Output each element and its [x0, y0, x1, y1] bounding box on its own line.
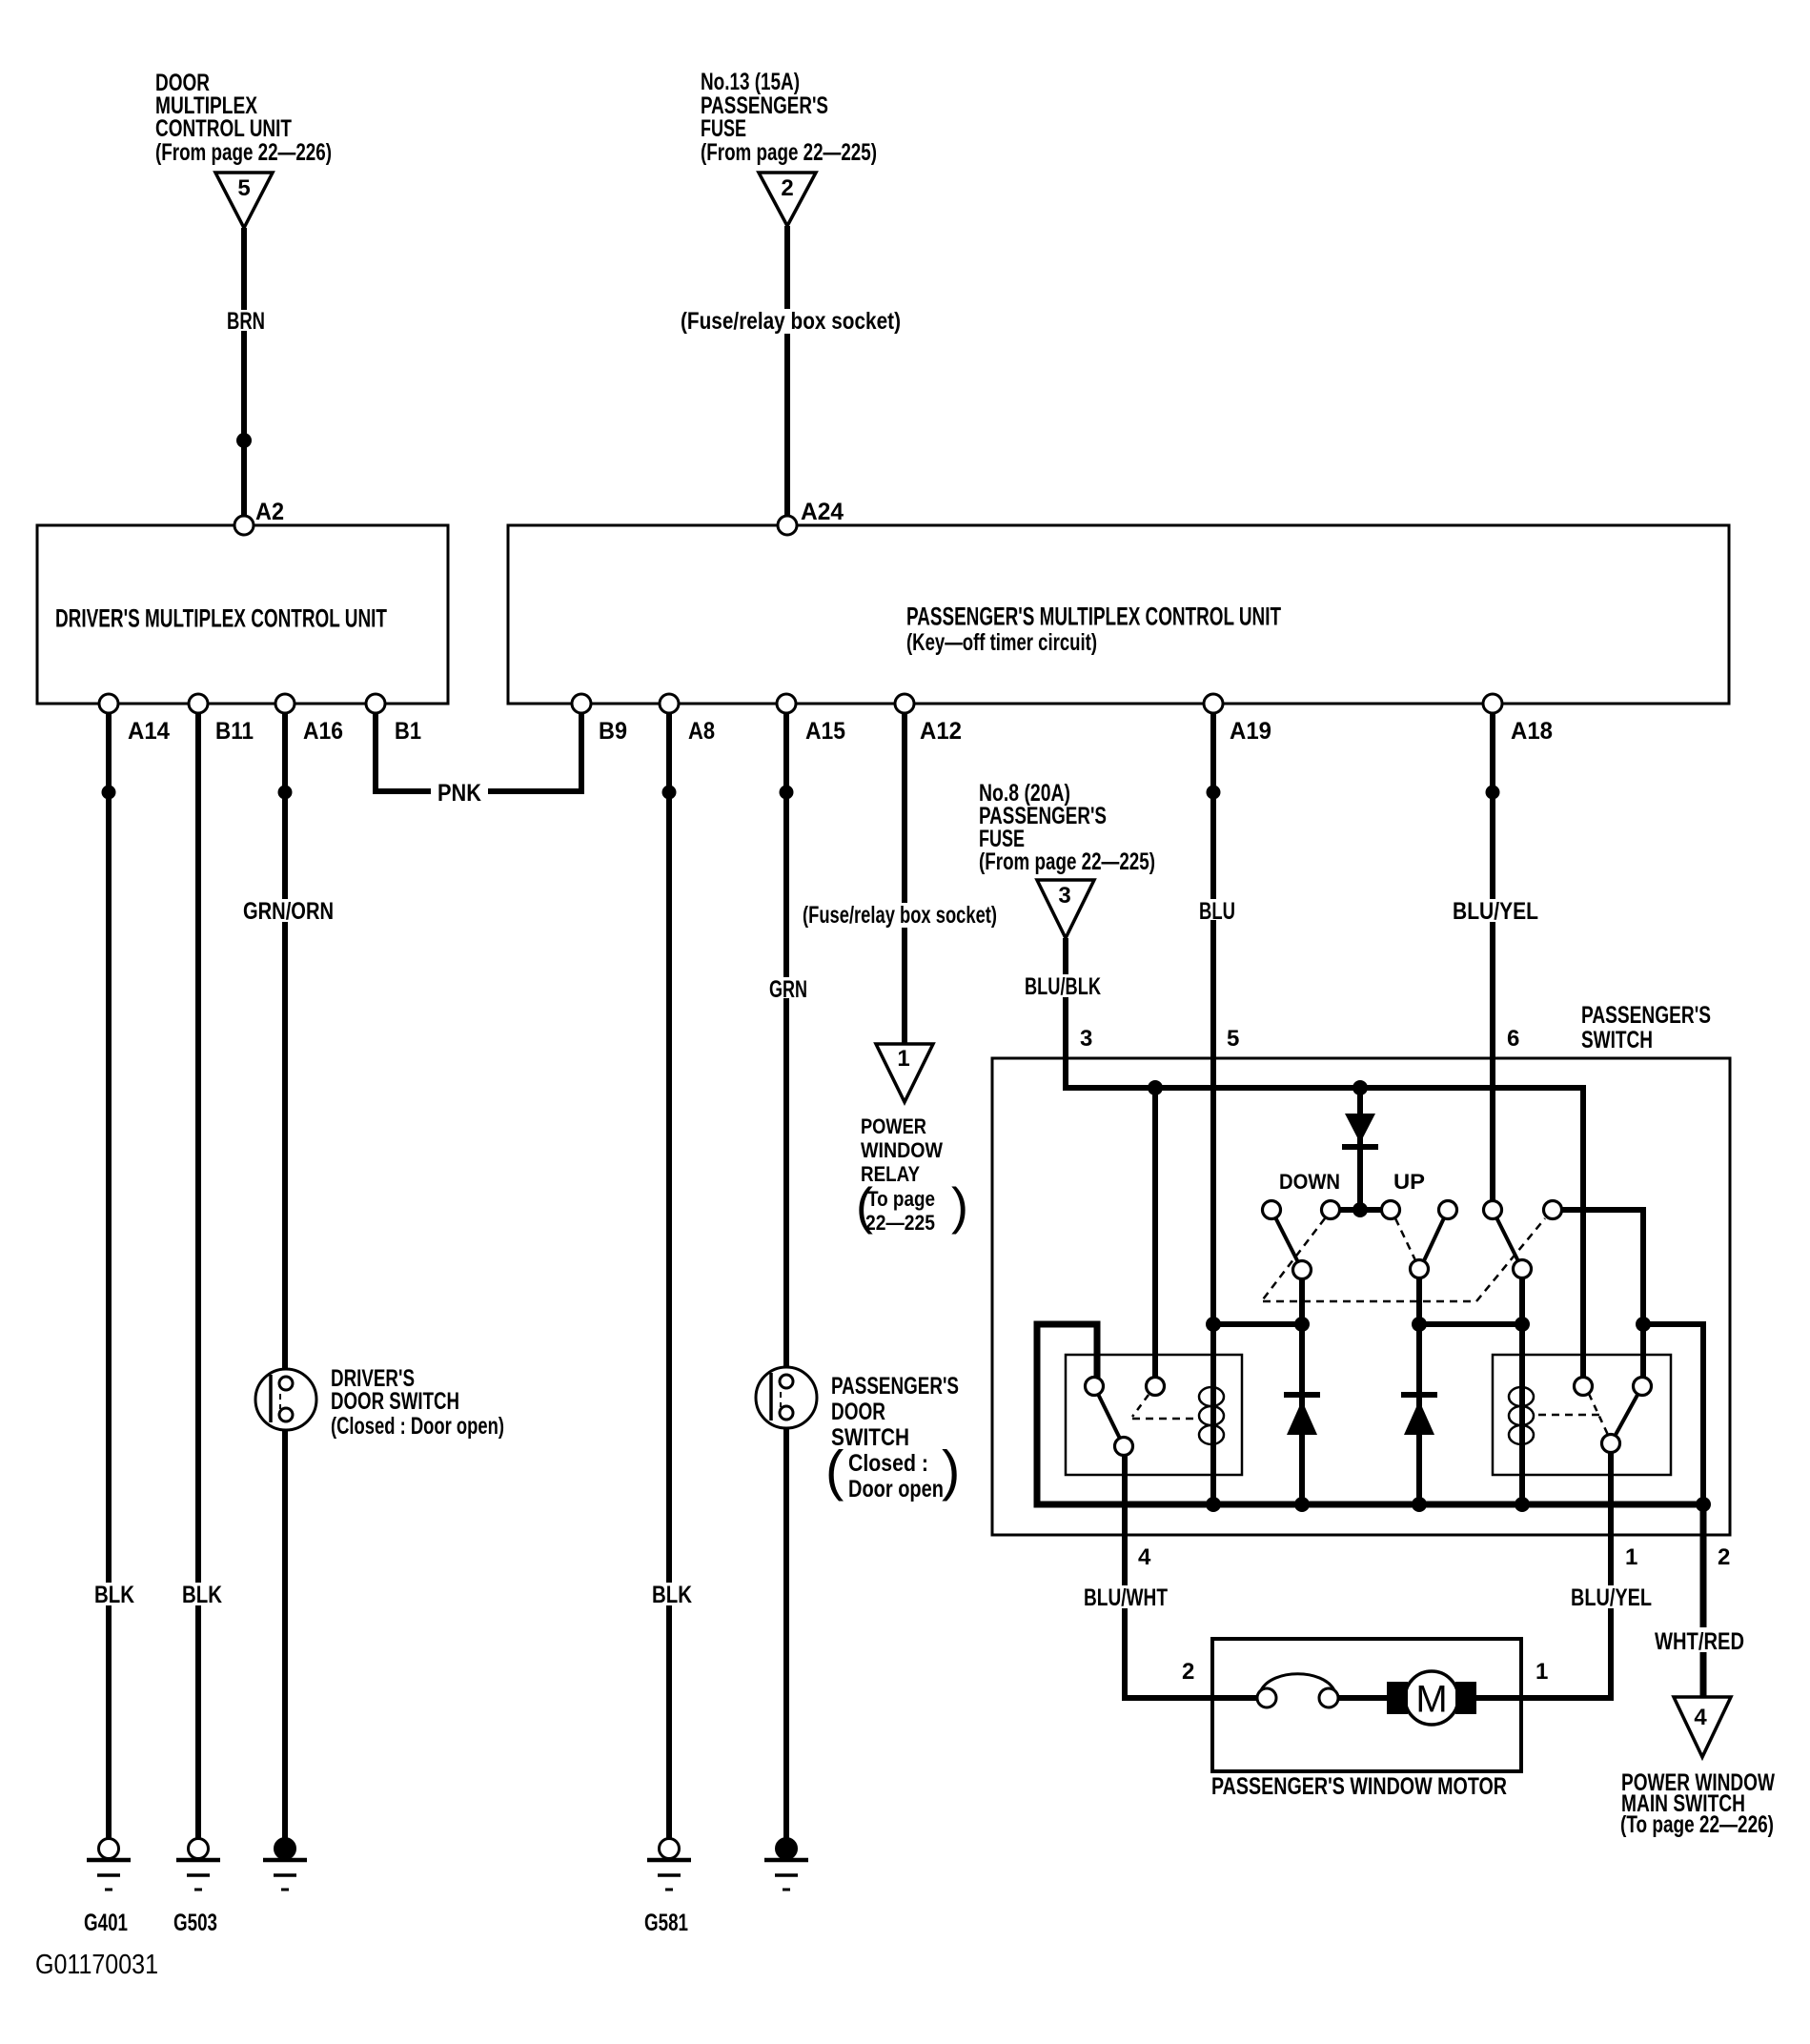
- svg-text:BLK: BLK: [94, 1582, 134, 1608]
- box: passenger's switch: [992, 1058, 1730, 1535]
- svg-text:2: 2: [781, 175, 793, 201]
- svg-text:(Fuse/relay box socket): (Fuse/relay box socket): [681, 308, 901, 335]
- svg-text:BLU: BLU: [1199, 898, 1235, 925]
- svg-text:3: 3: [1058, 883, 1070, 909]
- svg-text:GRN/ORN: GRN/ORN: [243, 898, 334, 925]
- box: passenger's window motor: [1212, 1639, 1521, 1771]
- passenger's door switch (plunger switch symbol): [756, 1367, 817, 1428]
- terminal A12: [895, 694, 914, 713]
- linkage dashed: left relay armature: [1132, 1395, 1149, 1417]
- svg-text:): ): [951, 1178, 968, 1236]
- svg-text:(From page 22—225): (From page 22—225): [979, 848, 1155, 875]
- label: wire colour BRN: [225, 310, 267, 331]
- box: left relay (window DOWN relay): [1066, 1355, 1242, 1475]
- label: wire colour GRN: [765, 977, 811, 998]
- svg-text:POWER: POWER: [861, 1114, 926, 1138]
- terminal A2: [234, 516, 254, 535]
- svg-text:(To page 22—226): (To page 22—226): [1620, 1811, 1774, 1838]
- junction: node row / right coil line: [1515, 1317, 1530, 1332]
- svg-text:BLU/BLK: BLU/BLK: [1025, 973, 1101, 1000]
- svg-text:(Closed : Door open): (Closed : Door open): [331, 1413, 504, 1440]
- junction dot on BRN wire: [236, 433, 252, 448]
- terminal A24: [778, 516, 797, 535]
- label: wire colour BLU/WHT: [1080, 1585, 1170, 1608]
- label: BLK on A14 wire: [91, 1583, 138, 1605]
- svg-text:No.13 (15A): No.13 (15A): [701, 69, 800, 95]
- junction: bottom bus / WHT/RED drop: [1696, 1497, 1711, 1512]
- svg-text:A8: A8: [688, 718, 715, 745]
- svg-text:(Fuse/relay box socket): (Fuse/relay box socket): [803, 902, 997, 929]
- label: wire colour WHT/RED: [1650, 1627, 1749, 1652]
- relay arm left (solid): [1094, 1386, 1124, 1446]
- svg-text:BLK: BLK: [652, 1582, 692, 1608]
- contacts: left relay: [1086, 1378, 1104, 1396]
- svg-text:B9: B9: [599, 718, 627, 745]
- wire: feed rail branch down to left relay contact: [1152, 1088, 1158, 1386]
- svg-text:DOWN: DOWN: [1279, 1170, 1340, 1194]
- svg-text:DRIVER'S MULTIPLEX CONTROL UNI: DRIVER'S MULTIPLEX CONTROL UNIT: [55, 603, 387, 632]
- svg-text:CONTROL UNIT: CONTROL UNIT: [155, 115, 292, 142]
- svg-text:Closed :: Closed :: [848, 1450, 928, 1477]
- svg-text:(Key—off timer circuit): (Key—off timer circuit): [906, 629, 1097, 656]
- wire PNK: terminal B1 to terminal B9: [376, 704, 581, 791]
- contacts: DOWN switch: [1263, 1201, 1281, 1219]
- label: BLK on A8 wire: [648, 1583, 696, 1605]
- label: wire colour BLU: [1195, 899, 1237, 920]
- svg-text:): ): [942, 1441, 960, 1502]
- svg-text:4: 4: [1694, 1705, 1707, 1730]
- svg-text:G503: G503: [173, 1910, 217, 1936]
- junction dot on A15 wire: [780, 786, 794, 800]
- svg-text:A2: A2: [255, 499, 284, 525]
- label: (Fuse/relay box socket) lower: [799, 903, 1001, 928]
- svg-text:4: 4: [1138, 1544, 1151, 1570]
- label: (Fuse/relay box socket) upper: [678, 309, 904, 334]
- svg-text:B11: B11: [215, 718, 254, 745]
- svg-text:A16: A16: [303, 718, 343, 745]
- wire: fuse connector 2 down to terminal A24: [784, 226, 790, 525]
- svg-text:BLU/YEL: BLU/YEL: [1453, 898, 1538, 925]
- wire: driver door switch down to ground: [282, 1415, 288, 1849]
- junction: node row / D1 line: [1294, 1317, 1310, 1332]
- svg-text:PASSENGER'S MULTIPLEX CONTROL: PASSENGER'S MULTIPLEX CONTROL UNIT: [906, 602, 1281, 630]
- connector triangle 2: No.13 passenger's fuse (from page 22-225): [759, 173, 816, 226]
- wire: UP/DOWN common node crossbar: [1331, 1207, 1391, 1213]
- svg-text:DOOR SWITCH: DOOR SWITCH: [331, 1388, 459, 1415]
- terminal B11: [189, 694, 208, 713]
- junction dot on A16 wire: [278, 786, 293, 800]
- diode D2 (below UP contact, cathode up): [1401, 1392, 1437, 1398]
- diode D3 (at UP/DOWN common node, cathode down): [1345, 1114, 1375, 1143]
- svg-text:A24: A24: [801, 499, 844, 525]
- svg-text:(: (: [825, 1441, 844, 1502]
- wire: DOWN contact through diode D1 to bottom bus: [1299, 1270, 1305, 1504]
- relay arm right (solid): [1611, 1386, 1642, 1443]
- terminal A19: [1204, 694, 1223, 713]
- box: passenger's multiplex control unit: [508, 525, 1729, 704]
- svg-text:G401: G401: [84, 1910, 128, 1936]
- junction: UP/DOWN common node: [1352, 1202, 1368, 1217]
- wire: passenger door switch down to ground: [783, 1413, 789, 1849]
- svg-text:A12: A12: [920, 718, 962, 745]
- wire BLK: terminal B11 down to ground G503: [195, 704, 201, 1849]
- svg-text:A14: A14: [128, 718, 170, 745]
- wire BLK: terminal A8 down to ground G581: [666, 704, 672, 1849]
- junction: node row / right relay pivot branch: [1636, 1317, 1651, 1332]
- svg-text:1: 1: [1535, 1659, 1548, 1685]
- svg-text:FUSE: FUSE: [701, 115, 746, 142]
- wire BLU/WHT: pin 4 down and right to motor pin 2: [1125, 1446, 1272, 1698]
- terminal A18: [1483, 694, 1502, 713]
- switch arm right / pin 6 (solid): [1493, 1210, 1522, 1269]
- svg-text:(From page 22—225): (From page 22—225): [701, 139, 877, 166]
- svg-text:PASSENGER'S: PASSENGER'S: [831, 1373, 959, 1400]
- connector triangle 3: No.8 passenger's fuse (from page 22-225): [1037, 880, 1094, 938]
- wire: node-row link D2 line to right coil line: [1419, 1321, 1522, 1327]
- terminal A8: [660, 694, 679, 713]
- wire BRN: connector 5 down to terminal A2: [241, 228, 247, 525]
- svg-text:BLU/WHT: BLU/WHT: [1084, 1584, 1168, 1611]
- svg-text:To page: To page: [867, 1187, 935, 1211]
- svg-text:SWITCH: SWITCH: [1581, 1027, 1653, 1053]
- svg-text:3: 3: [1080, 1026, 1092, 1052]
- terminal B9: [572, 694, 591, 713]
- wire: right contact through right relay coil to bottom bus: [1519, 1269, 1525, 1504]
- svg-text:B1: B1: [395, 718, 421, 745]
- driver's door switch (plunger switch symbol): [255, 1369, 316, 1430]
- svg-text:5: 5: [237, 175, 250, 201]
- svg-text:PNK: PNK: [437, 780, 481, 807]
- svg-text:A15: A15: [805, 718, 845, 745]
- coil: left relay winding: [1199, 1387, 1224, 1406]
- junction: bottom bus / right coil: [1515, 1497, 1530, 1512]
- svg-text:BLK: BLK: [182, 1582, 222, 1608]
- svg-text:M: M: [1415, 1679, 1447, 1721]
- linkage dashed: UP switch alternate arm: [1395, 1218, 1415, 1260]
- ground G401: [99, 1839, 119, 1859]
- label: wire colour BLU/YEL: [1449, 899, 1542, 922]
- switch arm DOWN (solid): [1271, 1210, 1302, 1270]
- svg-text:2: 2: [1182, 1659, 1194, 1685]
- box: driver's multiplex control unit: [37, 525, 448, 704]
- ground (driver door switch, case ground): [275, 1839, 295, 1859]
- linkage dashed: right relay armature: [1589, 1394, 1608, 1435]
- wire BLK: terminal A14 down to ground G401: [106, 704, 112, 1849]
- wire: feed rail through diode D3 to UP/DOWN common node: [1357, 1088, 1363, 1210]
- contacts: UP switch: [1382, 1201, 1400, 1219]
- contacts: right switch (pin 6): [1484, 1201, 1502, 1219]
- svg-text:G581: G581: [644, 1910, 688, 1936]
- svg-text:22—225: 22—225: [865, 1211, 935, 1235]
- svg-text:A18: A18: [1511, 718, 1553, 745]
- terminal B1: [366, 694, 385, 713]
- motor M (passenger's window motor armature): [1405, 1671, 1458, 1725]
- svg-text:2: 2: [1718, 1544, 1730, 1570]
- junction: feed rail / left relay branch: [1148, 1080, 1163, 1095]
- svg-text:(From page 22—226): (From page 22—226): [155, 139, 332, 166]
- ground G503: [189, 1839, 209, 1859]
- junction dot on A8 wire: [662, 786, 677, 800]
- svg-text:PASSENGER'S WINDOW MOTOR: PASSENGER'S WINDOW MOTOR: [1211, 1773, 1507, 1800]
- svg-text:(: (: [856, 1178, 873, 1236]
- ground G581: [660, 1839, 680, 1859]
- label: wire colour BLU/YEL lower: [1567, 1585, 1655, 1608]
- linkage dashed: right relay coil link: [1538, 1414, 1602, 1417]
- wire: UP contact through diode D2 to bottom bus: [1416, 1269, 1422, 1504]
- terminal A16: [275, 694, 295, 713]
- svg-text:WINDOW: WINDOW: [861, 1138, 943, 1162]
- wire GRN/ORN: terminal A16 down to driver door switch: [282, 704, 288, 1383]
- junction dot on A14 wire: [102, 786, 116, 800]
- junction: bottom bus / D2: [1412, 1497, 1427, 1512]
- junction: bottom bus / D1: [1294, 1497, 1310, 1512]
- diode D1 (below DOWN contact, cathode up): [1284, 1392, 1320, 1398]
- terminal A15: [777, 694, 796, 713]
- junction dot on A18 wire: [1486, 786, 1500, 800]
- svg-text:BRN: BRN: [227, 308, 265, 335]
- ground (passenger door switch, case ground): [777, 1839, 797, 1859]
- switch arm UP (solid): [1420, 1210, 1448, 1269]
- wire BLU/BLK: fuse connector 3 to pin 3 and feed rail to right relay contact: [1066, 938, 1583, 1386]
- contacts: right relay: [1575, 1378, 1593, 1396]
- terminal A14: [99, 694, 118, 713]
- junction: feed rail / diode D3: [1352, 1080, 1368, 1095]
- wire GRN: terminal A15 down to passenger door switch: [783, 704, 789, 1381]
- svg-text:6: 6: [1507, 1026, 1519, 1052]
- box: right relay (window UP relay): [1493, 1355, 1671, 1475]
- svg-text:A19: A19: [1230, 718, 1271, 745]
- wire: motor internal link fuse to brush: [1325, 1695, 1396, 1701]
- junction: node row / BLU line: [1206, 1317, 1221, 1332]
- linkage dashed: DOWN switch alternate arm: [1263, 1218, 1325, 1299]
- connector triangle 1: power window relay (to page 22-225): [876, 1044, 933, 1102]
- svg-text:GRN: GRN: [769, 976, 807, 1003]
- svg-text:1: 1: [897, 1046, 909, 1072]
- junction: node row / D2 line: [1412, 1317, 1427, 1332]
- wire: node-row branch right and down to bottom bus (WHT/RED feed): [1643, 1324, 1703, 1504]
- wire: left relay feed loop, bottom bus, and WHT/RED drop to connector 4: [1037, 1324, 1703, 1697]
- label: wire colour PNK: [431, 780, 488, 805]
- wire: right switch contact across and down to right relay pivot: [1561, 1210, 1643, 1386]
- svg-text:1: 1: [1625, 1544, 1637, 1570]
- svg-text:Door open: Door open: [848, 1476, 944, 1502]
- label: BLK on B11 wire: [178, 1583, 226, 1605]
- thermal fuse link inside motor box: [1257, 1688, 1276, 1707]
- svg-text:PASSENGER'S: PASSENGER'S: [1581, 1002, 1711, 1029]
- svg-text:DOOR: DOOR: [831, 1399, 885, 1425]
- label: wire colour GRN/ORN: [239, 899, 336, 922]
- junction dot on A19 wire: [1207, 786, 1221, 800]
- wire: node-row link BLU line to D1 line: [1213, 1321, 1302, 1327]
- wire: terminal A12 down to power window relay connector 1: [902, 704, 907, 1044]
- svg-text:UP: UP: [1393, 1170, 1425, 1194]
- svg-text:BLU/YEL: BLU/YEL: [1571, 1584, 1652, 1611]
- svg-text:G01170031: G01170031: [35, 1950, 158, 1980]
- label: wire colour BLU/BLK: [1021, 974, 1105, 997]
- linkage dashed: rocker bar: [1263, 1300, 1476, 1303]
- linkage dashed: left relay coil link: [1132, 1418, 1198, 1421]
- svg-text:WHT/RED: WHT/RED: [1655, 1628, 1744, 1655]
- connector triangle 5: door multiplex control unit (from page 22-226): [215, 173, 273, 228]
- junction: bottom bus / left coil: [1206, 1497, 1221, 1512]
- svg-text:5: 5: [1227, 1026, 1239, 1052]
- wire BLU/YEL: motor pin 1 right and up to relay contact pin 1: [1470, 1443, 1611, 1698]
- connector triangle 4: power window main switch (to page 22-226): [1674, 1697, 1731, 1757]
- linkage dashed: right switch alternate arm: [1476, 1218, 1545, 1301]
- wire BLU/YEL: terminal A18 to pin 6 switch contact: [1490, 704, 1495, 1210]
- coil: right relay winding: [1509, 1387, 1534, 1406]
- wire BLU: terminal A19 to pin 5, through left relay coil to bottom bus: [1210, 704, 1216, 1504]
